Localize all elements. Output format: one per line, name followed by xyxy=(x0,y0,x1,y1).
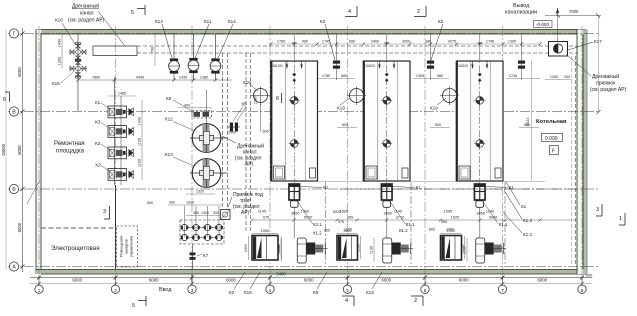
svg-text:7000: 7000 xyxy=(569,9,579,14)
level 0.000 box xyxy=(542,134,563,142)
svg-text:К14: К14 xyxy=(155,19,163,24)
svg-text:6: 6 xyxy=(3,97,6,103)
dim 7000 top right xyxy=(545,15,601,17)
pump K1.3 below boiler 3 xyxy=(474,184,485,216)
pump unit К1 xyxy=(108,106,134,118)
svg-text:6000: 6000 xyxy=(17,67,22,77)
svg-text:1025: 1025 xyxy=(451,216,459,220)
svg-text:К5: К5 xyxy=(242,102,248,107)
svg-text:1430: 1430 xyxy=(179,76,187,80)
manifold K8 xyxy=(192,111,212,119)
svg-text:К3: К3 xyxy=(95,141,101,146)
svg-text:0.000: 0.000 xyxy=(545,136,558,142)
svg-text:6000: 6000 xyxy=(459,278,469,283)
drainage pit top-right xyxy=(549,42,568,57)
svg-text:2: 2 xyxy=(417,9,420,15)
svg-text:К1: К1 xyxy=(509,185,515,190)
svg-text:700: 700 xyxy=(151,47,155,53)
svg-text:6000: 6000 xyxy=(381,278,391,283)
svg-text:3: 3 xyxy=(596,207,599,213)
svg-text:1900: 1900 xyxy=(344,228,352,232)
wall top xyxy=(36,30,586,35)
partition wall x=115 xyxy=(115,185,117,269)
svg-text:6000: 6000 xyxy=(304,278,314,283)
svg-text:300: 300 xyxy=(213,211,219,215)
svg-text:К16: К16 xyxy=(52,81,60,86)
floor opening with door leaf xyxy=(441,236,462,261)
bay riser pipes vertical dash-dot xyxy=(325,182,327,266)
dimension line bottom row2 xyxy=(30,283,592,285)
svg-text:500: 500 xyxy=(586,273,593,278)
svg-text:1900: 1900 xyxy=(446,228,454,232)
manifold risers xyxy=(184,206,186,227)
svg-text:7800: 7800 xyxy=(92,76,100,80)
svg-text:К2: К2 xyxy=(438,19,444,24)
dim 1400/1200 left xyxy=(61,34,63,68)
boiler bottom joining lines xyxy=(317,181,363,183)
svg-text:Дренажный: Дренажный xyxy=(72,3,99,10)
svg-text:1: 1 xyxy=(619,216,622,222)
dim 700 near channel xyxy=(154,34,156,66)
svg-text:1785: 1785 xyxy=(322,74,330,78)
svg-text:К7: К7 xyxy=(203,253,209,258)
ticks on bottom row2 xyxy=(37,282,41,286)
svg-text:400: 400 xyxy=(184,104,190,108)
equipment circle K19 xyxy=(251,87,270,106)
stem from wall to cross valves xyxy=(77,34,79,111)
cross valve K16 xyxy=(69,43,87,62)
svg-text:5: 5 xyxy=(131,10,134,16)
svg-text:600: 600 xyxy=(263,130,269,134)
inlet valve on drainage channel xyxy=(188,34,199,80)
svg-text:1025: 1025 xyxy=(186,201,194,205)
pump unit К3 xyxy=(108,126,134,138)
svg-text:К1: К1 xyxy=(521,204,527,209)
svg-text:800: 800 xyxy=(524,123,530,127)
supply pipes to pumps xyxy=(114,77,116,185)
svg-text:К5: К5 xyxy=(313,290,319,295)
svg-text:6: 6 xyxy=(424,288,427,293)
svg-text:(см. раздел АР): (см. раздел АР) xyxy=(590,87,627,93)
svg-text:К1: К1 xyxy=(323,185,329,190)
svg-text:К1.4: К1.4 xyxy=(523,218,533,223)
svg-text:К2: К2 xyxy=(229,290,235,295)
svg-text:К13: К13 xyxy=(165,152,173,157)
valves K5 xyxy=(228,123,240,132)
drain riser dashed right xyxy=(575,56,577,264)
manifold K9 dashed box xyxy=(180,220,224,244)
svg-text:1395: 1395 xyxy=(416,74,424,78)
boiler unit 1 xyxy=(271,52,318,190)
svg-text:1190: 1190 xyxy=(277,244,281,252)
svg-text:-0.600: -0.600 xyxy=(536,22,549,27)
svg-text:6000: 6000 xyxy=(226,278,236,283)
svg-text:965: 965 xyxy=(441,220,447,224)
riser to boiler xyxy=(293,34,295,60)
svg-text:975: 975 xyxy=(338,220,344,224)
svg-text:канал: канал xyxy=(80,11,94,17)
svg-text:4: 4 xyxy=(345,298,348,304)
right vertical dim line xyxy=(598,15,600,112)
pipe below pump xyxy=(479,210,481,238)
svg-text:К14: К14 xyxy=(228,19,236,24)
tank К12 xyxy=(190,124,227,153)
svg-text:6: 6 xyxy=(276,96,279,102)
axis bubbles left xyxy=(9,29,18,38)
svg-text:АР): АР) xyxy=(241,210,250,216)
svg-text:6000: 6000 xyxy=(537,278,547,283)
vertical dim 1190 bay 3 xyxy=(466,238,468,262)
svg-text:300: 300 xyxy=(564,75,570,79)
vertical dim 1190 bay 2 xyxy=(373,238,375,262)
svg-text:3: 3 xyxy=(191,288,194,293)
dim column right of pumps xyxy=(141,100,143,180)
svg-text:1400: 1400 xyxy=(58,39,62,47)
svg-text:1745: 1745 xyxy=(509,74,517,78)
svg-text:980: 980 xyxy=(437,74,443,78)
svg-text:К1: К1 xyxy=(416,185,422,190)
valve K2 on riser xyxy=(427,34,434,80)
svg-text:Х2: Х2 xyxy=(95,163,101,168)
svg-text:6000: 6000 xyxy=(17,222,22,232)
svg-text:К1.1: К1.1 xyxy=(313,222,322,227)
svg-text:Вывод: Вывод xyxy=(513,3,530,9)
manifold valve row xyxy=(181,224,223,230)
vertical dim 1190 bay 1 xyxy=(281,238,283,262)
svg-text:управления: управления xyxy=(129,236,134,257)
svg-text:980: 980 xyxy=(425,40,431,44)
svg-text:К2: К2 xyxy=(320,19,326,24)
svg-text:канализации: канализации xyxy=(505,10,537,16)
svg-text:К12: К12 xyxy=(165,117,173,122)
svg-text:800: 800 xyxy=(435,123,441,127)
svg-text:К1: К1 xyxy=(95,100,101,105)
svg-text:1300: 1300 xyxy=(550,75,558,79)
svg-text:980: 980 xyxy=(341,74,347,78)
svg-text:3000: 3000 xyxy=(402,40,410,44)
svg-text:Котельная: Котельная xyxy=(536,119,566,125)
inlet valve on drainage channel xyxy=(169,34,180,80)
svg-text:3650: 3650 xyxy=(384,212,392,216)
svg-text:К13: К13 xyxy=(366,290,374,295)
trap pit symbol xyxy=(221,210,231,220)
svg-text:2: 2 xyxy=(414,298,417,304)
svg-text:5: 5 xyxy=(132,303,135,309)
svg-text:Дренажный: Дренажный xyxy=(592,73,619,80)
svg-text:К16: К16 xyxy=(55,18,63,23)
svg-text:1565: 1565 xyxy=(340,210,348,214)
svg-text:К1.2: К1.2 xyxy=(399,228,408,233)
svg-text:К1.1: К1.1 xyxy=(406,222,415,227)
svg-text:1190: 1190 xyxy=(370,246,374,254)
svg-text:8: 8 xyxy=(581,288,584,293)
riser to boiler xyxy=(386,34,388,60)
svg-text:1100: 1100 xyxy=(138,159,142,167)
svg-text:4440: 4440 xyxy=(136,76,144,80)
wall right xyxy=(577,30,588,275)
boiler unit 3 xyxy=(457,52,504,190)
wall left xyxy=(36,30,41,275)
partition dashed y=228 xyxy=(41,227,116,229)
column axis grid lines xyxy=(38,26,40,286)
svg-text:1190: 1190 xyxy=(357,244,361,252)
svg-text:(см. раздел АР): (см. раздел АР) xyxy=(68,18,105,24)
svg-text:1140: 1140 xyxy=(258,210,266,214)
svg-text:980: 980 xyxy=(349,40,355,44)
floor opening with door leaf xyxy=(252,236,278,261)
level -0.600 box xyxy=(534,21,553,28)
cross valve K16 xyxy=(69,59,87,78)
dim 1500 left of opening S1 xyxy=(248,236,250,260)
drainage channel left dashed box xyxy=(93,46,137,56)
riser to boiler xyxy=(479,34,481,60)
svg-text:1745: 1745 xyxy=(486,40,494,44)
svg-text:1100: 1100 xyxy=(138,138,142,146)
svg-text:3: 3 xyxy=(103,209,106,215)
inlet valve on drainage channel xyxy=(210,34,221,80)
svg-text:1400: 1400 xyxy=(138,117,142,125)
interior dim rows xyxy=(252,219,577,221)
svg-text:1745: 1745 xyxy=(322,40,330,44)
svg-text:К1.2: К1.2 xyxy=(523,232,533,237)
pump unit Х2 xyxy=(108,169,134,181)
svg-text:АР): АР) xyxy=(245,162,254,168)
svg-text:1300: 1300 xyxy=(508,40,516,44)
svg-text:Г: Г xyxy=(13,31,16,37)
svg-text:F: F xyxy=(552,149,555,155)
svg-text:18000: 18000 xyxy=(1,143,6,156)
svg-text:4275: 4275 xyxy=(448,40,456,44)
valve assembly K1.2 lower xyxy=(383,238,414,263)
svg-text:2Ш100: 2Ш100 xyxy=(365,64,375,68)
svg-text:К8: К8 xyxy=(166,96,172,101)
tank К13 xyxy=(190,159,227,188)
leader at left wall xyxy=(27,180,40,204)
svg-text:К11: К11 xyxy=(204,19,212,24)
svg-text:1565: 1565 xyxy=(444,210,452,214)
pipe below pump xyxy=(386,210,388,238)
svg-text:Ввод: Ввод xyxy=(159,287,172,293)
floor opening with door leaf xyxy=(337,236,358,261)
svg-text:1785: 1785 xyxy=(277,40,285,44)
axis bubbles bottom xyxy=(35,285,43,293)
svg-text:1485: 1485 xyxy=(118,92,126,96)
svg-text:5: 5 xyxy=(346,288,349,293)
svg-text:К19: К19 xyxy=(337,106,345,111)
valve assembly K1.3 lower xyxy=(476,238,507,263)
svg-text:1: 1 xyxy=(38,288,41,293)
svg-text:965: 965 xyxy=(347,216,353,220)
svg-text:4: 4 xyxy=(269,288,272,293)
dimension line left xyxy=(22,28,24,272)
svg-text:К17: К17 xyxy=(594,39,602,44)
svg-text:площадка: площадка xyxy=(56,149,85,155)
svg-text:5925: 5925 xyxy=(333,210,341,214)
room label cabinets (rotated, dashed box) xyxy=(117,226,138,267)
svg-text:800: 800 xyxy=(342,123,348,127)
svg-text:Дренажный: Дренажный xyxy=(237,143,264,150)
svg-text:300: 300 xyxy=(169,201,175,205)
svg-text:6000: 6000 xyxy=(72,278,82,283)
pump unit К3 xyxy=(108,147,134,159)
svg-text:К19: К19 xyxy=(243,80,251,85)
pipe below pump xyxy=(293,210,295,238)
svg-text:600: 600 xyxy=(147,201,153,205)
svg-text:6000: 6000 xyxy=(149,278,159,283)
svg-text:1190: 1190 xyxy=(461,244,465,252)
svg-text:2Ш100: 2Ш100 xyxy=(273,64,283,68)
manifold valve row xyxy=(181,234,223,240)
valve assembly K1.1 lower xyxy=(297,238,328,263)
row axis grid lines xyxy=(8,33,598,35)
svg-text:1380: 1380 xyxy=(200,76,208,80)
valve K7 xyxy=(190,244,196,269)
pipe dash-dot y=189 right xyxy=(340,188,577,190)
svg-text:К1.1: К1.1 xyxy=(499,222,508,227)
dimension line bottom row1 xyxy=(30,277,592,279)
pump K1.2 below boiler 2 xyxy=(381,184,392,216)
svg-text:Ремонтная: Ремонтная xyxy=(54,141,85,147)
svg-text:К19: К19 xyxy=(430,106,438,111)
valve K2 right of boiler 3 xyxy=(518,34,525,80)
svg-text:7: 7 xyxy=(501,288,504,293)
svg-text:665: 665 xyxy=(324,229,330,233)
drainage channel vertical (dashed) xyxy=(222,53,224,210)
svg-text:К3: К3 xyxy=(95,120,101,125)
svg-text:980: 980 xyxy=(302,40,308,44)
boiler unit 2 xyxy=(364,52,411,190)
svg-text:1300: 1300 xyxy=(201,211,209,215)
pump K1.1 below boiler 1 xyxy=(289,184,300,216)
svg-text:4: 4 xyxy=(348,9,351,15)
dim line y80 left area xyxy=(78,79,232,81)
svg-text:2280: 2280 xyxy=(254,96,258,104)
drainage channel top (dashed) xyxy=(137,45,578,47)
svg-text:2Ш100: 2Ш100 xyxy=(458,64,468,68)
svg-text:К1.2: К1.2 xyxy=(313,231,322,236)
svg-text:2: 2 xyxy=(114,288,117,293)
svg-text:1200: 1200 xyxy=(58,57,62,65)
svg-text:приямок: приямок xyxy=(596,81,616,87)
valve K2 on riser xyxy=(333,34,340,80)
wall bottom xyxy=(36,270,586,275)
svg-text:975: 975 xyxy=(263,216,269,220)
svg-text:3650: 3650 xyxy=(477,212,485,216)
svg-text:1320: 1320 xyxy=(196,190,204,194)
F box xyxy=(550,146,559,155)
svg-text:3650: 3650 xyxy=(291,212,299,216)
ticks on top dim line xyxy=(270,43,273,46)
svg-text:1500: 1500 xyxy=(244,244,248,252)
svg-text:5400: 5400 xyxy=(276,272,286,277)
svg-text:Электрощитовая: Электрощитовая xyxy=(51,245,100,252)
svg-text:5000: 5000 xyxy=(304,216,312,220)
svg-text:3400: 3400 xyxy=(371,40,379,44)
svg-text:К15: К15 xyxy=(244,290,252,295)
svg-text:1900: 1900 xyxy=(261,229,269,233)
svg-text:6000: 6000 xyxy=(17,145,22,155)
svg-text:665: 665 xyxy=(429,228,435,232)
